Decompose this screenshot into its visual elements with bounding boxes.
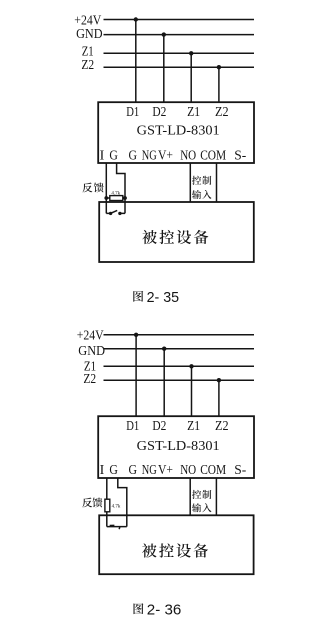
wire D2 drop (fig 2-35) <box>163 35 165 103</box>
svg-text:I: I <box>100 463 105 478</box>
label 控制 control (fig 2-36) <box>192 490 201 499</box>
label 反馈 feedback (fig 2-35) <box>82 183 92 193</box>
junction dot on GND bus (fig 2-36) <box>162 347 166 351</box>
svg-text:2- 35: 2- 35 <box>147 289 180 306</box>
svg-text:GST-LD-8301: GST-LD-8301 <box>137 124 220 139</box>
svg-text:S-: S- <box>234 463 246 478</box>
svg-text:G: G <box>129 463 138 478</box>
wire Z2 bus (fig 2-36) <box>104 379 255 381</box>
junction dot on +24V bus (fig 2-35) <box>134 17 138 21</box>
svg-text:G: G <box>109 149 118 164</box>
svg-text:V+: V+ <box>158 463 173 478</box>
device box 被控设备 (fig 2-36) <box>99 515 253 574</box>
svg-text:D2: D2 <box>152 419 166 434</box>
svg-text:Z2: Z2 <box>215 419 229 434</box>
wire Z1 bus (fig 2-36) <box>104 365 255 367</box>
wire GND bus (fig 2-35) <box>104 34 255 36</box>
device label 被控设备 (fig 2-35) <box>142 230 157 244</box>
resistor R1 4.7k terminal resistor (fig 2-35) <box>106 197 125 199</box>
svg-text:S-: S- <box>234 149 246 164</box>
junction dot on Z2 bus (fig 2-36) <box>217 378 221 382</box>
wire NO drop to device (fig 2-35) <box>189 163 191 202</box>
wire NO drop to device (fig 2-36) <box>189 478 191 515</box>
wire resistor to switch loop (fig 2-36) <box>106 512 108 527</box>
module GST-LD-8301 (fig 2-36) <box>98 416 254 478</box>
wire D1 drop (fig 2-36) <box>135 335 137 416</box>
svg-text:D1: D1 <box>126 419 139 434</box>
label 输入 input (fig 2-35) <box>192 190 201 199</box>
svg-text:I: I <box>100 149 105 164</box>
label 输入 input (fig 2-36) <box>192 503 201 512</box>
wire COM drop to device (fig 2-35) <box>216 163 218 202</box>
svg-text:Z2: Z2 <box>83 372 96 387</box>
svg-text:D2: D2 <box>152 105 166 120</box>
wire from pin I down to switch (fig 2-35) <box>105 163 107 213</box>
wire COM drop to device (fig 2-36) <box>215 478 217 515</box>
svg-text:D1: D1 <box>126 105 139 120</box>
wire from pin I down to resistor (fig 2-36) <box>106 478 108 499</box>
wire from pin G with jog down to switch (fig 2-35) <box>117 163 125 213</box>
junction dot on Z1 bus (fig 2-35) <box>189 51 193 55</box>
label 控制 control (fig 2-35) <box>192 176 201 185</box>
label 反馈 feedback (fig 2-36) <box>82 498 92 508</box>
svg-text:+24V: +24V <box>77 329 104 344</box>
device box 被控设备 (fig 2-35) <box>99 202 254 262</box>
module GST-LD-8301 (fig 2-35) <box>98 102 254 163</box>
junction dot resistor right lead (fig 2-35) <box>123 196 127 200</box>
wire Z1 drop (fig 2-36) <box>191 366 193 416</box>
wire D2 drop (fig 2-36) <box>163 349 165 417</box>
junction dot on +24V bus (fig 2-36) <box>134 333 138 337</box>
svg-text:Z2: Z2 <box>81 58 94 73</box>
svg-text:GND: GND <box>76 27 103 42</box>
caption 图 2-35 <box>133 291 143 302</box>
wire +24V bus (fig 2-36) <box>104 334 255 336</box>
resistor R2 4.7k in series (fig 2-36) <box>105 499 110 512</box>
svg-text:2- 36: 2- 36 <box>147 601 182 618</box>
caption 图 2-36 <box>134 603 144 614</box>
svg-text:V+: V+ <box>158 149 173 164</box>
svg-text:COM: COM <box>200 463 226 478</box>
svg-text:Z1: Z1 <box>187 419 200 434</box>
wire Z2 drop (fig 2-35) <box>218 67 220 102</box>
svg-text:G: G <box>129 149 138 164</box>
svg-text:G: G <box>109 463 118 478</box>
switch S1 NO contact of controlled device (fig 2-35) <box>106 212 125 214</box>
switch S2 contact in feedback loop (fig 2-36) <box>107 526 127 528</box>
junction dot on GND bus (fig 2-35) <box>162 32 166 36</box>
wire Z2 drop (fig 2-36) <box>218 380 220 416</box>
svg-text:NG: NG <box>142 149 157 164</box>
svg-text:NO: NO <box>180 149 196 164</box>
wire Z1 bus (fig 2-35) <box>104 52 255 54</box>
svg-text:COM: COM <box>200 149 226 164</box>
svg-text:Z2: Z2 <box>215 105 229 120</box>
wire GND bus (fig 2-36) <box>104 348 255 350</box>
svg-text:Z1: Z1 <box>187 105 200 120</box>
junction dot on Z2 bus (fig 2-35) <box>217 65 221 69</box>
svg-text:4.7k: 4.7k <box>111 192 120 197</box>
wire from pin G with jog down to switch loop (fig 2-36) <box>118 478 127 527</box>
device label 被控设备 (fig 2-36) <box>142 543 157 557</box>
svg-text:GST-LD-8301: GST-LD-8301 <box>137 439 220 454</box>
svg-text:+24V: +24V <box>74 13 101 28</box>
svg-text:GND: GND <box>78 344 105 359</box>
wire Z2 bus (fig 2-35) <box>104 66 255 68</box>
wire D1 drop (fig 2-35) <box>135 20 137 103</box>
svg-text:NO: NO <box>180 463 196 478</box>
wire Z1 drop (fig 2-35) <box>190 53 192 102</box>
svg-text:4.7k: 4.7k <box>112 504 121 509</box>
junction dot resistor left lead (fig 2-35) <box>104 196 108 200</box>
svg-text:NG: NG <box>142 463 157 478</box>
junction dot on Z1 bus (fig 2-36) <box>189 364 193 368</box>
wire +24V bus (fig 2-35) <box>104 19 255 21</box>
